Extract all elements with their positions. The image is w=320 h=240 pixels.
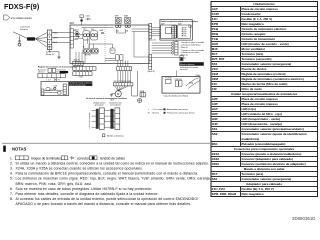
svg-text:M: M (117, 92, 120, 96)
svg-text:R2T, R3T: R2T, R3T (212, 57, 225, 61)
svg-text:Conmutador selector (ajuste de: Conmutador selector (ajuste de identific… (242, 132, 307, 136)
svg-text:,: , (68, 156, 69, 160)
svg-text:3.: 3. (10, 167, 13, 171)
svg-text:Termistor (aire): Termistor (aire) (242, 172, 264, 176)
svg-text:PCB: PCB (212, 27, 219, 31)
svg-text:Regleta de terminales (suminis: Regleta de terminales (suministro eléctr… (242, 77, 304, 81)
svg-text:Mando a distancia: Mando a distancia (180, 63, 195, 66)
svg-text:X33A: X33A (189, 82, 194, 85)
svg-text:: tendido de cables: : tendido de cables (98, 156, 125, 160)
svg-text:Al conectar los cables de entr: Al conectar los cables de entrada de la … (16, 197, 199, 201)
svg-text:H3P: H3P (212, 117, 218, 121)
svg-text:1: 1 (49, 31, 51, 34)
svg-text:BS1: BS1 (212, 142, 218, 146)
svg-text:Conmutador selector (emergenci: Conmutador selector (emergencia) (242, 62, 292, 66)
svg-text:6.: 6. (10, 187, 13, 191)
svg-text:Circuito de transmisión: Circuito de transmisión (242, 37, 276, 41)
svg-text:V1R: V1R (212, 67, 219, 71)
svg-text:H1P: H1P (212, 107, 218, 111)
svg-text:7.: 7. (10, 192, 13, 196)
svg-text:N: N (148, 113, 150, 115)
svg-text:eléctrico: eléctrico (20, 28, 29, 31)
svg-text:P1 P2: P1 P2 (55, 79, 60, 81)
svg-text:inalámbrica): inalámbrica) (242, 137, 260, 141)
svg-text:Pulsador (encendido/apagado): Pulsador (encendido/apagado) (242, 142, 286, 146)
svg-text:Unidad receptora/visualizadora: Unidad receptora/visualizadora de indica… (231, 92, 298, 96)
svg-text:A3P: A3P (212, 102, 218, 106)
svg-text:R1T: R1T (212, 172, 218, 176)
svg-text:3: 3 (49, 41, 51, 44)
svg-text:H2P: H2P (212, 112, 218, 116)
svg-text:F1U,F2U: F1U,F2U (165, 78, 172, 80)
svg-text:A2P: A2P (212, 97, 218, 101)
svg-text:H1P: H1P (184, 28, 187, 30)
svg-text:WHT YLW ORG BLU PNK: WHT YLW ORG BLU PNK (114, 81, 132, 83)
svg-text:M1F: M1F (212, 47, 218, 51)
svg-text:Adaptador para cableado: Adaptador para cableado (246, 182, 282, 186)
svg-text:Para obtener más detalles, con: Para obtener más detalles, consulte el d… (16, 192, 159, 196)
svg-text:TCB: TCB (212, 37, 219, 41)
svg-text:SS1: SS1 (184, 35, 187, 37)
svg-text:Termistor (aire): Termistor (aire) (242, 52, 264, 56)
svg-text:SS1: SS1 (212, 127, 218, 131)
svg-text:HAP: HAP (212, 42, 218, 46)
svg-text:R1T: R1T (212, 52, 218, 56)
svg-text:LED (monitor de servicio - ver: LED (monitor de servicio - verde) (242, 42, 289, 46)
svg-text:Conmutador selector (emergenci: Conmutador selector (emergencia) (242, 177, 292, 181)
svg-text:Puente de diodos: Puente de diodos (242, 67, 267, 71)
svg-text:Fusible (F, 1 A, 250 V): Fusible (F, 1 A, 250 V) (242, 17, 273, 21)
svg-text:Relé magnético: Relé magnético (242, 192, 264, 196)
svg-text:X33A: X33A (212, 157, 220, 161)
svg-text:Solo se muestra en caso de tub: Solo se muestra en caso de tubos protegi… (16, 187, 153, 191)
svg-text:X1M: X1M (212, 72, 219, 76)
svg-text:Circuito de suministro eléctri: Circuito de suministro eléctrico (242, 27, 287, 31)
svg-text:Caja de distribución (Nota): Caja de distribución (Nota) (164, 94, 189, 97)
svg-text:SS1: SS1 (212, 177, 218, 181)
svg-text:SS1: SS1 (212, 62, 218, 66)
svg-text:Unidad interior: Unidad interior (253, 2, 275, 6)
svg-text:X2M: X2M (212, 77, 219, 81)
svg-text:opcional): opcional) (180, 69, 188, 71)
svg-text:A1P: A1P (70, 22, 75, 25)
svg-text:A1P: A1P (212, 7, 218, 11)
svg-text:(secundaria): (secundaria) (110, 104, 121, 107)
svg-text:Conectores para componentes op: Conectores para componentes opcionales (234, 147, 295, 151)
svg-text:KPR KDR: KPR KDR (175, 79, 183, 81)
svg-text:a la unidad exterior: a la unidad exterior (88, 112, 91, 128)
svg-text:2: 2 (49, 36, 51, 39)
svg-text:X24A: X24A (212, 152, 220, 156)
svg-text:HAP: HAP (100, 29, 104, 32)
svg-text:Motor ventilador: Motor ventilador (242, 47, 266, 51)
svg-text:(Nota 3): (Nota 3) (149, 39, 157, 42)
svg-text:H4P: H4P (212, 122, 218, 126)
svg-text:(Nota 2): (Nota 2) (181, 53, 188, 56)
svg-text:H4P: H4P (184, 33, 187, 35)
svg-text:1 2 3: 1 2 3 (46, 79, 50, 81)
svg-text:Z1C: Z1C (212, 82, 219, 86)
svg-text:: Protección a tierra (por tie: : Protección a tierra (por tierra) (166, 112, 195, 115)
svg-text:KBR: KBR (124, 15, 129, 17)
svg-text:3D080361D: 3D080361D (292, 216, 315, 221)
svg-text:Z1F: Z1F (212, 87, 218, 91)
svg-text:Conector (adaptador para cable: Conector (adaptador para cableado) (242, 157, 294, 161)
svg-text:Para la conmutación de BRC1E p: Para la conmutación de BRC1E principal/s… (16, 172, 199, 176)
svg-text:Mando a distancia con cable: Mando a distancia con cable (244, 167, 285, 171)
svg-text:KPR, KDR, KHuR: KPR, KDR, KHuR (212, 192, 237, 196)
svg-text:4.: 4. (10, 172, 13, 176)
svg-text:SS2: SS2 (212, 132, 218, 136)
svg-text:: conector,: : conector, (75, 156, 90, 160)
svg-text:H2P: H2P (184, 29, 187, 31)
svg-text:Conector (mando a distancia in: Conector (mando a distancia inalámbrico) (242, 152, 302, 156)
svg-text:Los símbolos se muestran como: Los símbolos se muestran como sigue: RED… (16, 177, 211, 181)
svg-text:LED (rojo): LED (rojo) (242, 107, 257, 111)
svg-text:: bloque de terminales,: : bloque de terminales, (30, 156, 62, 160)
svg-text:Placa de circuito impreso: Placa de circuito impreso (242, 97, 279, 101)
svg-text:L: L (148, 109, 150, 111)
svg-text:Si utiliza un mando a distanci: Si utiliza un mando a distancia central,… (16, 161, 209, 165)
svg-text:F1U, F2U: F1U, F2U (212, 187, 225, 191)
svg-text:C105: C105 (85, 16, 90, 18)
svg-text:Núcleo de ferrita (filtro de r: Núcleo de ferrita (filtro de ruido) (242, 82, 288, 86)
svg-text:F1U: F1U (212, 17, 218, 21)
svg-text:5.: 5. (10, 177, 13, 181)
svg-text:C105: C105 (212, 12, 220, 16)
svg-text:Placa de circuito impreso: Placa de circuito impreso (242, 102, 279, 106)
svg-text:X24A, X33A y X35A se conectan: X24A, X33A y X35A se conectan cuando se … (16, 167, 144, 171)
svg-text:H3P: H3P (184, 31, 187, 33)
svg-text:LED (temporizador - verde): LED (temporizador - verde) (242, 117, 281, 121)
svg-text:En caso de sistema de funciona: En caso de sistema de funcionamiento sim… (86, 97, 127, 100)
svg-text:NOTAS: NOTAS (12, 147, 27, 152)
svg-text:8.: 8. (10, 197, 13, 201)
svg-text:X1A: X1A (54, 84, 58, 87)
svg-text:APAGADO o de paro forzado a tr: APAGADO o de paro forzado a través del m… (16, 202, 192, 206)
svg-text:Fusible (B), 5 A, 250 V): Fusible (B), 5 A, 250 V) (242, 187, 274, 191)
svg-text:1.: 1. (10, 156, 13, 160)
svg-text:Filtro de ruido: Filtro de ruido (242, 87, 262, 91)
svg-text:Circuito receptor: Circuito receptor (242, 32, 267, 36)
svg-text:BRN: marrón, PNK: rosa, GRY: g: BRN: marrón, PNK: rosa, GRY: gris, BLU: … (16, 182, 93, 186)
svg-text:Regleta de terminales de funci: Regleta de terminales de funcionamiento (38, 65, 78, 68)
svg-text:(Nota 3): (Nota 3) (148, 70, 156, 73)
svg-text:(Nota 2): (Nota 2) (181, 46, 188, 49)
svg-text:(principal): (principal) (95, 104, 104, 107)
svg-text:a la unidad exterior: a la unidad exterior (11, 17, 32, 20)
svg-text:eléctrico: eléctrico (38, 71, 45, 74)
svg-text:Condensador: Condensador (242, 12, 262, 16)
svg-text:de cables: de cables (56, 72, 64, 74)
svg-text:KPR: KPR (212, 22, 219, 26)
svg-text:: Mando a distancia: : Mando a distancia (106, 134, 125, 137)
svg-text:(accesorio opcional): (accesorio opcional) (70, 83, 86, 86)
svg-text:X35A: X35A (212, 162, 220, 166)
svg-text:Relé magnético: Relé magnético (242, 22, 264, 26)
svg-text:KPR: KPR (115, 15, 120, 17)
svg-text:R2T R3T: R2T R3T (85, 55, 91, 57)
svg-text:R1T: R1T (111, 50, 114, 52)
svg-text:Regleta de terminales (control: Regleta de terminales (control) (242, 72, 286, 76)
svg-text:LED (símbolo de filtro - rojo): LED (símbolo de filtro - rojo) (242, 112, 283, 116)
svg-text:: Alambrado para activo: : Alambrado para activo (166, 108, 189, 111)
svg-text:: Neutro: : Neutro (152, 112, 160, 115)
svg-text:RCB: RCB (212, 32, 219, 36)
svg-text:(Nota 6): (Nota 6) (46, 53, 54, 56)
svg-text:Conector (suministro eléctrico: Conector (suministro eléctrico de adapta… (242, 162, 306, 166)
svg-text:X1M: X1M (79, 77, 83, 79)
svg-text:LED (desescarche - naranja): LED (desescarche - naranja) (242, 122, 282, 126)
svg-text:Termistor (serpentín): Termistor (serpentín) (242, 57, 272, 61)
svg-text:Placa de circuito impreso: Placa de circuito impreso (242, 7, 279, 11)
svg-text:Conmutador selector (principal: Conmutador selector (principal/secundari… (242, 127, 304, 131)
svg-text:FDXS-F(9): FDXS-F(9) (4, 2, 40, 11)
svg-text:2.: 2. (10, 161, 13, 165)
